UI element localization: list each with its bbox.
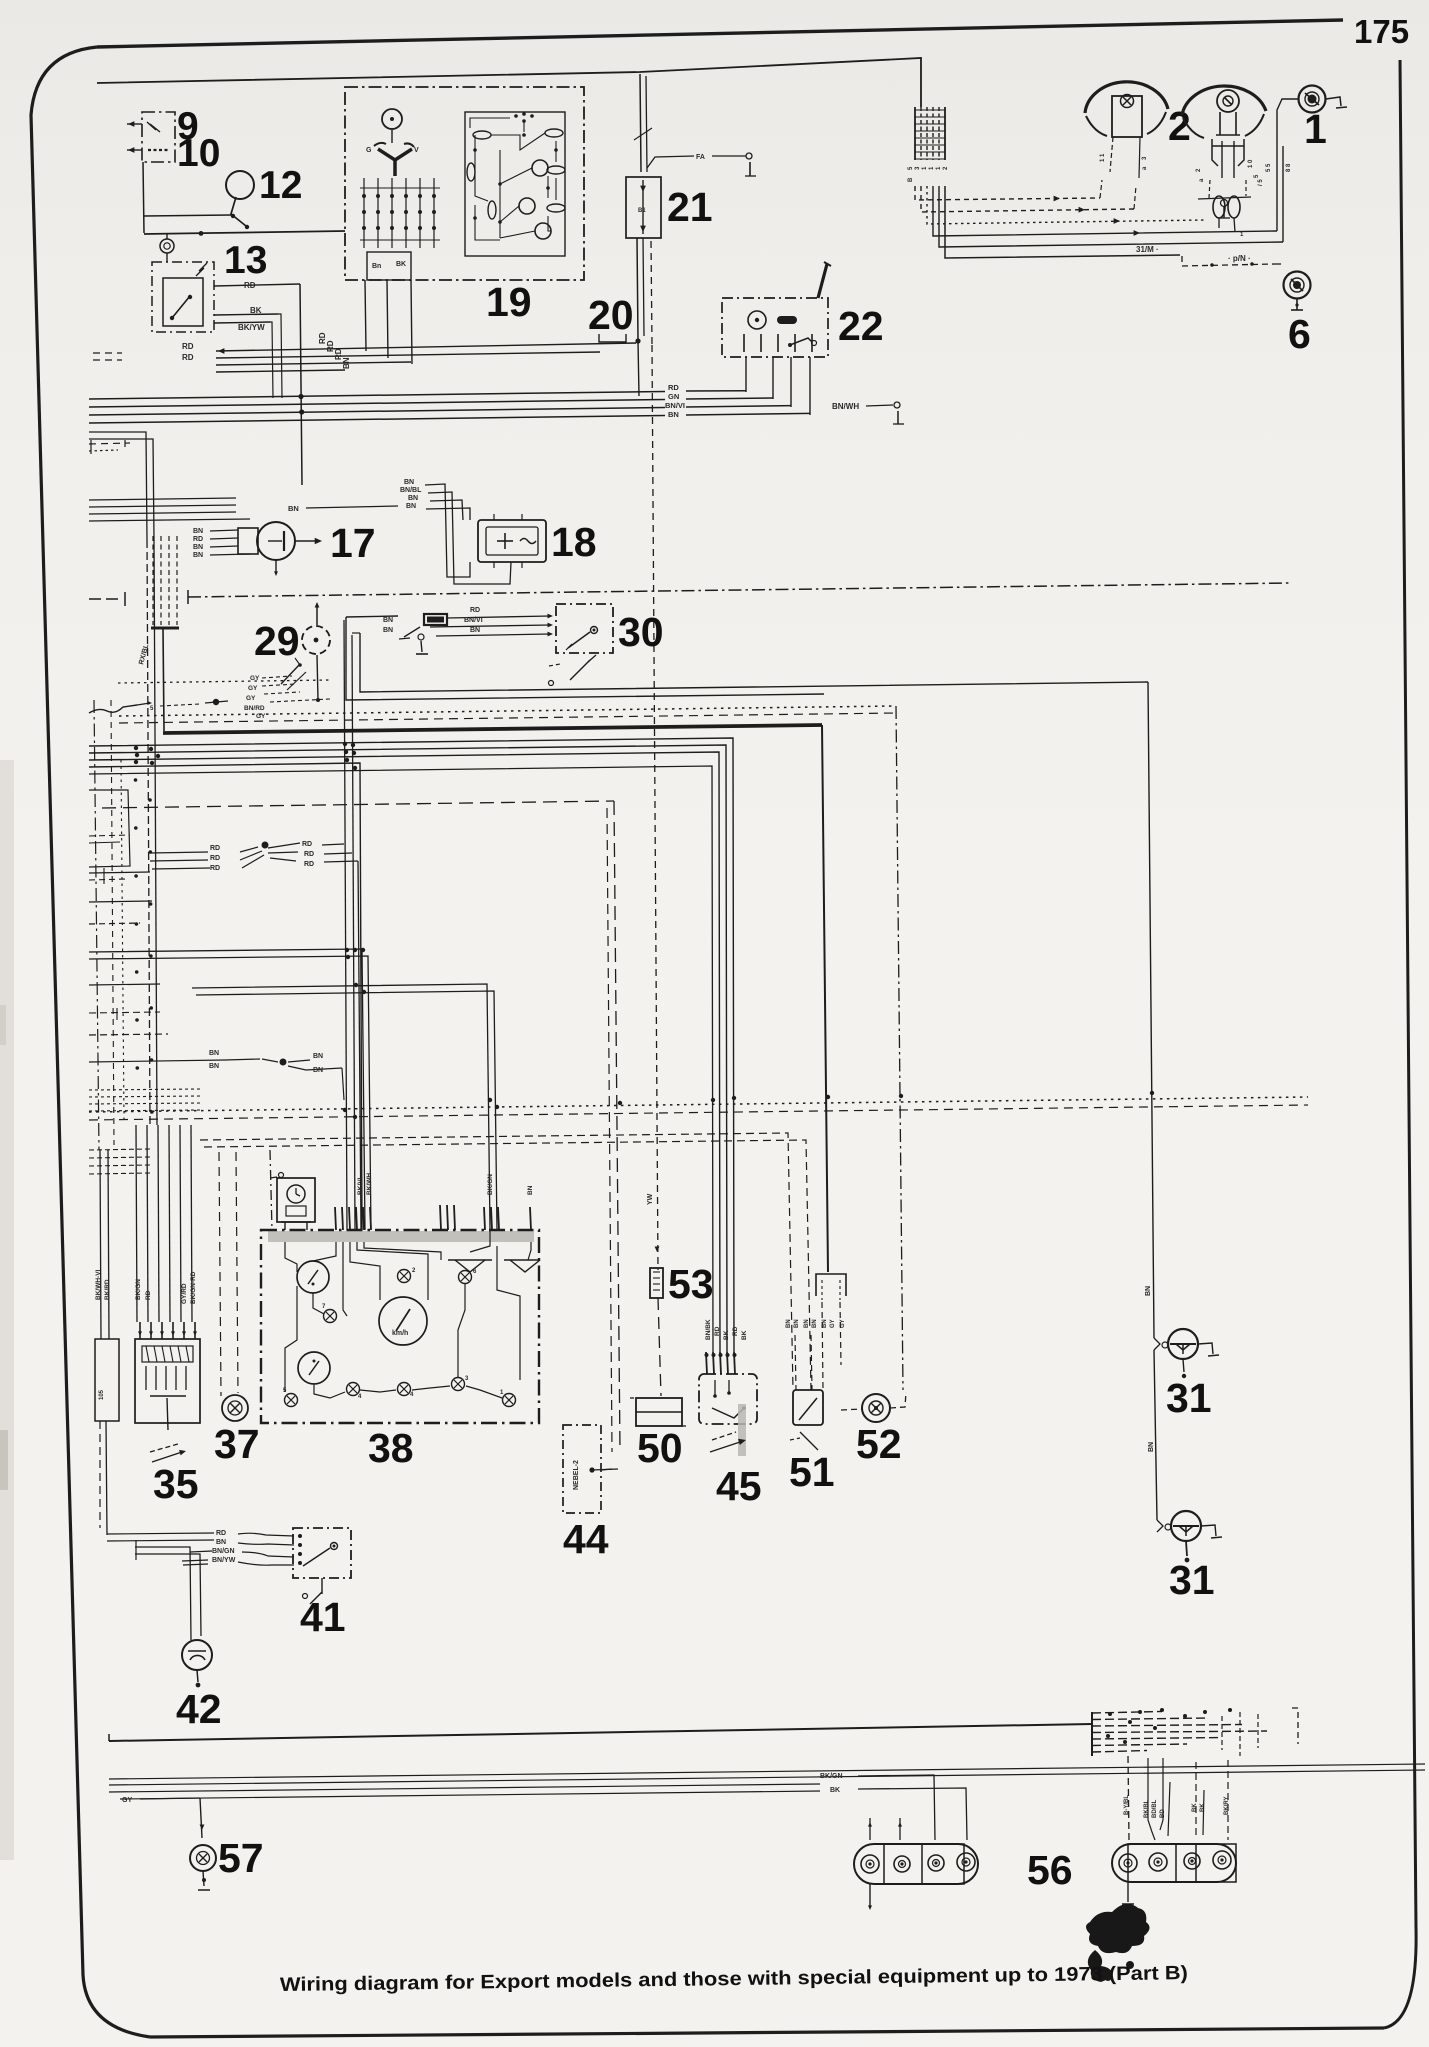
svg-text:56: 56: [1027, 1847, 1073, 1893]
svg-text:RD: RD: [714, 1326, 721, 1336]
wire FA line to terminal: [712, 155, 746, 157]
svg-text:31: 31: [1166, 1375, 1212, 1421]
connector 56L terminal 2: [894, 1856, 910, 1872]
svg-text:BN: BN: [383, 627, 393, 634]
wire 30 feed BN: [436, 634, 550, 636]
lamp 31b fork: [1157, 1520, 1163, 1532]
svg-text:BK/WH-VI: BK/WH-VI: [95, 1269, 102, 1300]
wire dotted bus 679: [118, 680, 330, 683]
lamp 31a inner bar: [1170, 1343, 1196, 1345]
headlamp 2b reflector dome: [1182, 86, 1266, 115]
wire 30 feed RD: [447, 616, 550, 618]
svg-text:BN/BL: BN/BL: [400, 487, 422, 494]
svg-text:YW: YW: [647, 1193, 654, 1205]
connector 35 inner pins: [145, 1366, 147, 1390]
switch 22 pin marks: [743, 334, 745, 352]
terminal block right bracket: [1292, 1708, 1298, 1744]
bulb 38 b3: [398, 1383, 411, 1396]
horn 37 inner: [228, 1401, 242, 1415]
svg-text:105: 105: [99, 1389, 105, 1400]
wire heavy line: [163, 725, 822, 733]
bus B5 line5 short: [89, 766, 713, 1352]
speedometer 38: [379, 1297, 427, 1345]
svg-text:· p/N ·: · p/N ·: [1228, 254, 1251, 263]
switch 45 shadow: [738, 1404, 746, 1456]
junction dot: [199, 231, 204, 236]
instrument 38 inner wires: [285, 1242, 297, 1272]
lamp 1 symbol: [1299, 86, 1326, 113]
wire 13 BK/YW row: [214, 322, 270, 323]
wire 29 drop: [317, 655, 318, 700]
flasher 18 inner box: [486, 527, 538, 555]
contact grid 19 vertical wires: [363, 178, 365, 248]
splice RD star: [262, 842, 269, 849]
connector 35 tail arrow: [150, 1444, 178, 1452]
resistor 19 oval c: [547, 166, 565, 174]
wire 56L pins up: [869, 1818, 871, 1840]
connector 35 tail: [167, 1398, 168, 1430]
switch 45 pin heads: [705, 1353, 709, 1357]
svg-text:RD: RD: [210, 845, 220, 852]
wire 51 bracket: [816, 1274, 846, 1296]
motor 17 connector box: [238, 528, 258, 554]
bus bottom double 1: [109, 1764, 1425, 1779]
bus wire BN: [89, 416, 665, 424]
svg-text:35: 35: [153, 1461, 199, 1507]
bulb 38 t1: [398, 1270, 411, 1283]
wire 35 feeder lines: [136, 1125, 137, 1322]
switch 51 diagonal: [799, 1398, 817, 1420]
ink blot: [1086, 1904, 1150, 1953]
wire 44 to dashed vert: [592, 1469, 618, 1470]
wire vert to 31 lamps: [1148, 682, 1154, 1338]
wire 42 drop pair: [135, 1547, 191, 1640]
svg-text:BK/RY: BK/RY: [1224, 1797, 1230, 1815]
wire dotted bus2 row2: [89, 1105, 1308, 1120]
connector 35 hatch: [142, 1346, 193, 1362]
bundle U-bus 1: [915, 186, 1100, 200]
lamp 29 broken circle: [302, 626, 330, 654]
wire 30 feed BNVI: [430, 625, 550, 627]
left col hatch cluster: [89, 1089, 200, 1090]
relay coil 19 a: [532, 160, 548, 176]
svg-text:BN: BN: [404, 479, 414, 486]
lamp 42 inner: [190, 1655, 205, 1660]
fuse 30 rect: [424, 614, 447, 625]
svg-text:BN: BN: [313, 1067, 323, 1074]
svg-text:km/h: km/h: [392, 1330, 408, 1337]
resistor 50 leads: [630, 1397, 636, 1399]
left col hatch cluster2: [89, 1149, 150, 1150]
wire 19 drop b: [387, 280, 388, 358]
svg-text:BN/WH: BN/WH: [832, 402, 859, 411]
wire dashed B6: [102, 801, 614, 808]
svg-text:42: 42: [176, 1686, 222, 1732]
connector 56R terminal 3: [1184, 1853, 1200, 1869]
lamp 42 tail: [197, 1670, 198, 1682]
svg-text:RD: RD: [304, 861, 314, 868]
wire left col low stubs: [89, 984, 160, 985]
svg-text:51: 51: [789, 1449, 835, 1495]
bus wire GN: [89, 400, 665, 408]
connector 56L ground tail: [869, 1884, 871, 1906]
splice BN left: [225, 1059, 260, 1060]
switch 45 lever arrow: [712, 1432, 736, 1440]
wire 52 right elbow: [890, 1392, 906, 1408]
bus bottom double 2: [109, 1784, 820, 1792]
motor 19 ammeter lead: [391, 129, 393, 143]
outer frame right border + bottom-right corner: [1384, 60, 1416, 2028]
headlamp 2a pin risers: [1100, 180, 1102, 198]
switch 41 below: [321, 1578, 323, 1594]
wire long line left hook: [108, 1734, 110, 1741]
switch 30 pre: [404, 627, 420, 637]
switch 45 box: [699, 1374, 757, 1424]
switch 22 slider: [777, 316, 797, 324]
connector 9 symbol: [147, 122, 160, 132]
horn 52 inner: [869, 1401, 883, 1415]
regulator 19 extra wiring: [470, 118, 510, 128]
wire divider tick: [187, 590, 189, 604]
svg-text:30: 30: [618, 609, 664, 655]
headlamp 2a bulb box: [1112, 96, 1142, 137]
wire BN drop: [342, 1068, 344, 1100]
svg-text:GN: GN: [668, 392, 679, 401]
svg-text:37: 37: [214, 1421, 260, 1467]
switch 30 below: [549, 664, 560, 666]
svg-text:31/M ·: 31/M ·: [1136, 245, 1159, 254]
lamp 57 tail: [203, 1871, 204, 1886]
wire 56R pins: [1128, 1756, 1129, 1840]
junction splice dot: [213, 699, 219, 705]
relay 13 outer box: [152, 262, 214, 332]
wire 22 drop 3: [790, 357, 792, 407]
splice BN dot: [280, 1059, 287, 1066]
wire inner rect B top: [352, 632, 360, 634]
bulb 38 b1: [285, 1394, 298, 1407]
wire dash bundle: [152, 536, 154, 625]
relay 30 box: [556, 604, 613, 653]
wire dashdot vert 52: [896, 706, 903, 1390]
svg-text:RD: RD: [216, 1530, 226, 1537]
headlamp 2b oval tails: [1218, 218, 1220, 228]
wire left col tick marks: [90, 440, 92, 454]
horn 52 outer circle: [862, 1394, 890, 1422]
bracket under 20: [599, 334, 626, 342]
svg-text:17: 17: [330, 520, 376, 566]
wire 29 arrow up: [316, 605, 318, 625]
svg-text:BK: BK: [830, 1787, 840, 1794]
svg-text:BN: BN: [209, 1050, 219, 1057]
relay coil 19 b: [519, 198, 535, 214]
wire dashed B6b vert: [607, 808, 612, 1452]
svg-text:BN/GN: BN/GN: [212, 1548, 235, 1555]
connector 35-left tail2: [99, 1421, 101, 1528]
svg-text:BN: BN: [216, 1539, 226, 1546]
junction dots B5 crossings: [134, 746, 138, 750]
bus B5 line3: [89, 752, 720, 1352]
switch 41 arm: [303, 1548, 330, 1566]
wire dashed vert 20-53: [652, 345, 658, 1270]
lamp 31a fork: [1154, 1338, 1160, 1350]
bulb 38 m: [324, 1310, 337, 1323]
wire 37 dashed feeders: [219, 1152, 221, 1396]
connector 35-left tail: [106, 1421, 107, 1535]
lamp 31b hook: [1201, 1525, 1216, 1536]
motor 17 circle: [257, 522, 295, 560]
wire left col pair corner: [89, 432, 147, 540]
svg-text:19: 19: [486, 279, 532, 325]
lamp 31b circle: [1171, 1511, 1201, 1541]
wire dash bundle bar: [151, 627, 179, 630]
svg-text:BN/VI: BN/VI: [464, 617, 483, 624]
wire 52 left: [841, 1409, 862, 1410]
relay 13 inner box: [163, 278, 203, 326]
svg-text:RD: RD: [732, 1326, 739, 1336]
headlamp 2a bulb filament: [1121, 95, 1134, 108]
horn 37 outer circle: [222, 1395, 248, 1421]
lamp 31b tail: [1186, 1541, 1187, 1556]
fuse 53 arrow: [655, 1247, 660, 1253]
svg-text:BN: BN: [527, 1185, 534, 1195]
wire 51 bracket dashes: [821, 1280, 823, 1300]
bus B2 line3: [89, 512, 236, 514]
fuse 53 body: [650, 1268, 663, 1298]
flasher 18 tilde: [520, 539, 536, 544]
switch 45 inner pins: [714, 1380, 716, 1396]
wire top feed line: [97, 58, 921, 107]
wire 35 left box feeders: [100, 1150, 101, 1339]
connector 10 symbol: [148, 149, 168, 151]
wire vert 38 b: [352, 635, 355, 1230]
wire 9-10 drop: [143, 162, 144, 233]
bus wire BN/VI: [89, 408, 665, 416]
wire bundle drop solid: [163, 628, 164, 731]
wire GY stub: [140, 1798, 200, 1799]
instrument 38 top pins b: [440, 1205, 441, 1230]
bulb 38 t2: [459, 1271, 472, 1284]
bulb 38 b5: [503, 1394, 516, 1407]
switch 51 box: [793, 1390, 823, 1425]
fuse 13 top symbol: [160, 239, 174, 253]
wire vert 38 f: [192, 984, 490, 1230]
wire left col extra dash v: [111, 700, 114, 1145]
wire left col low v1: [94, 700, 99, 1150]
outer frame left border + top-left corner: [31, 47, 150, 2037]
connector 56R inner rects: [1128, 1844, 1176, 1882]
relay 44 contact dot: [589, 1467, 594, 1472]
bus wire RD: [89, 392, 665, 400]
connector 56L inner rects: [884, 1844, 964, 1884]
svg-text:BN/BK: BN/BK: [705, 1319, 712, 1340]
bulb 38 b4: [452, 1378, 465, 1391]
svg-text:1: 1: [1304, 106, 1327, 152]
svg-text:BN: BN: [193, 528, 203, 535]
headlamp 2b bulb: [1217, 90, 1239, 112]
bus B5 line4: [89, 763, 362, 1230]
wire BKYW elbow drop: [270, 322, 273, 398]
terminal box 19 BN BK: [367, 252, 411, 280]
svg-text:BK/GN: BK/GN: [820, 1773, 843, 1780]
bus bottom double 2b: [120, 1791, 820, 1799]
svg-text:50: 50: [637, 1425, 683, 1471]
svg-text:BN: BN: [209, 1063, 219, 1070]
wire 56L feed 1: [858, 1775, 935, 1840]
svg-text:BN: BN: [1148, 1442, 1155, 1452]
instrument 38 top pins a: [335, 1207, 336, 1230]
svg-text:BN: BN: [408, 495, 418, 502]
svg-text:BN: BN: [288, 504, 299, 513]
contact grid 19 dots: [362, 194, 366, 198]
wire dashed B11: [200, 1133, 793, 1390]
headlamp 2b bulb stem: [1219, 112, 1221, 135]
wire under 2a: [1198, 197, 1251, 199]
svg-text:1 0: 1 0: [1248, 159, 1254, 168]
svg-text:BK: BK: [723, 1330, 730, 1340]
svg-text:G: G: [366, 147, 372, 154]
svg-text:RD: RD: [668, 383, 679, 392]
wire 18 feed 1: [425, 484, 470, 577]
wire RD row A: [216, 343, 636, 351]
wire dotted bus2 row1: [89, 1097, 1308, 1112]
svg-text:B1: B1: [638, 208, 646, 214]
wire 30 ground drop: [421, 641, 422, 652]
outer frame bottom border: [150, 2028, 1384, 2037]
gauge 38 circle 1: [297, 1261, 329, 1293]
svg-text:BN: BN: [313, 1053, 323, 1060]
wire 29 dash stubs: [262, 676, 292, 678]
svg-text:BN: BN: [193, 552, 203, 559]
svg-text:29: 29: [254, 618, 300, 664]
resistor 19 oval b: [545, 129, 563, 137]
svg-text:BK: BK: [741, 1330, 748, 1340]
svg-text:BK/GN: BK/GN: [487, 1174, 494, 1195]
regulator 19 inner wiring: [491, 133, 545, 150]
terminal FA circle: [746, 153, 752, 159]
wire 19 drop a: [365, 280, 366, 351]
svg-text:BK/GN-RD: BK/GN-RD: [190, 1271, 197, 1304]
scan left edge mark: [0, 1430, 8, 1490]
switch 12 lever: [231, 197, 246, 226]
wire hook squiggle: [89, 705, 137, 713]
switch 51 below: [800, 1432, 818, 1450]
svg-text:31: 31: [1169, 1557, 1215, 1603]
svg-text:BK/GN: BK/GN: [135, 1279, 142, 1300]
wire 57 drop: [200, 1798, 202, 1838]
relay 44 box: [563, 1425, 601, 1513]
wire left col tick pair: [103, 868, 105, 884]
motor 19 ammeter circle: [382, 109, 402, 129]
terminal block risers: [1221, 1716, 1223, 1750]
instrument 38 tri contact 2: [510, 1260, 540, 1272]
svg-text:RD: RD: [182, 342, 194, 351]
wire heavy drop 51: [822, 725, 828, 1272]
wire RD row C: [216, 362, 411, 365]
svg-text:38: 38: [368, 1425, 414, 1471]
flasher 18 plus: [504, 533, 506, 549]
svg-text:13: 13: [224, 239, 267, 282]
regulator 19 mid dots: [498, 182, 502, 186]
svg-text:1 1: 1 1: [1100, 153, 1106, 162]
connector 56L body: [854, 1844, 978, 1884]
wire stub row 702: [160, 704, 200, 706]
motor 17 arrow right: [295, 540, 319, 542]
resistor 50 outer: [636, 1398, 682, 1426]
svg-text:5 5: 5 5: [1266, 163, 1272, 172]
scan shading left gutter: [0, 760, 14, 1860]
svg-text:21: 21: [667, 184, 713, 230]
wire left stub 900: [89, 901, 152, 902]
svg-text:6: 6: [1288, 311, 1311, 357]
svg-text:RD: RD: [210, 855, 220, 862]
svg-text:BN: BN: [342, 357, 351, 369]
svg-text:GY: GY: [122, 1797, 132, 1804]
svg-text:BN: BN: [812, 1319, 818, 1328]
motor 17 ground stub: [275, 560, 277, 572]
fuse 21 box: [626, 177, 661, 238]
svg-text:8 8: 8 8: [1286, 163, 1292, 172]
switch 29 diagonals: [281, 664, 300, 684]
headlamp 2b pin dashes: [1209, 180, 1210, 198]
svg-text:BK/YW: BK/YW: [238, 323, 265, 332]
wire long line to 56R: [109, 1724, 1092, 1741]
wire left col dash stub: [89, 443, 130, 444]
svg-text:RD: RD: [182, 353, 194, 362]
wire 13 BK row: [214, 314, 278, 315]
splice RD right to vert: [322, 844, 344, 845]
wire 13 to RD row: [214, 284, 300, 286]
wire dashdot stub 38 left: [270, 1150, 272, 1230]
bus arrows: [1054, 196, 1060, 202]
wire 21 bottom pair: [637, 238, 638, 340]
wire 19 drop c: [411, 280, 412, 364]
bus B2 line2: [89, 505, 236, 507]
wire main row 233: [144, 231, 345, 234]
wire 31 connect: [1154, 1350, 1157, 1520]
headlamp 2b socket: [1212, 139, 1218, 166]
svg-text:B: B: [908, 177, 914, 182]
wire row D: [216, 370, 345, 372]
bus B2 line4 BN long: [89, 519, 250, 521]
relay coil 19 c: [535, 223, 551, 239]
bundle U-bus 4: [933, 186, 1277, 236]
svg-text:GY/RD: GY/RD: [181, 1283, 188, 1304]
flasher 18 pins: [493, 514, 495, 520]
svg-text:BN: BN: [1145, 1286, 1152, 1296]
svg-text:V: V: [414, 147, 419, 154]
terminal block dots: [1108, 1712, 1112, 1716]
resistor 19 oval vert: [467, 163, 475, 181]
svg-text:BN: BN: [406, 503, 416, 510]
svg-text:RD: RD: [193, 536, 203, 543]
svg-text:22: 22: [838, 303, 884, 349]
lamp 6 symbol: [1284, 272, 1311, 299]
lamp 31a tail: [1183, 1359, 1184, 1372]
wire left col v1 cont: [147, 540, 150, 1125]
svg-text:BN: BN: [786, 1319, 792, 1328]
wire 18 feed 4: [426, 508, 470, 520]
bulb 38 b2: [347, 1383, 360, 1396]
bus B5 line1: [89, 738, 734, 1352]
wire inner rect A: [346, 617, 824, 700]
wire left col extra v: [121, 760, 124, 1120]
wire left stub 922: [89, 923, 140, 924]
splice RD left stubs: [150, 852, 208, 853]
wire left dashes: [93, 352, 122, 354]
switch 22 knob circle: [748, 311, 766, 329]
regulator 19 outer dash-dot box: [345, 87, 584, 280]
lamp 57 circle: [190, 1845, 216, 1871]
